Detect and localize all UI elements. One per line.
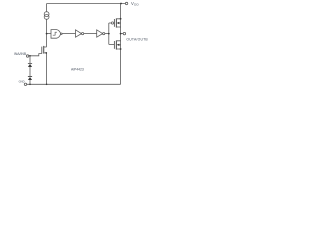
svg-text:GND: GND bbox=[19, 80, 25, 84]
svg-text:OUTA/OUTB: OUTA/OUTB bbox=[126, 37, 148, 41]
svg-text:VDD: VDD bbox=[131, 1, 140, 7]
svg-text:INA/INB: INA/INB bbox=[14, 52, 27, 56]
svg-text:AiP4423: AiP4423 bbox=[71, 68, 84, 72]
